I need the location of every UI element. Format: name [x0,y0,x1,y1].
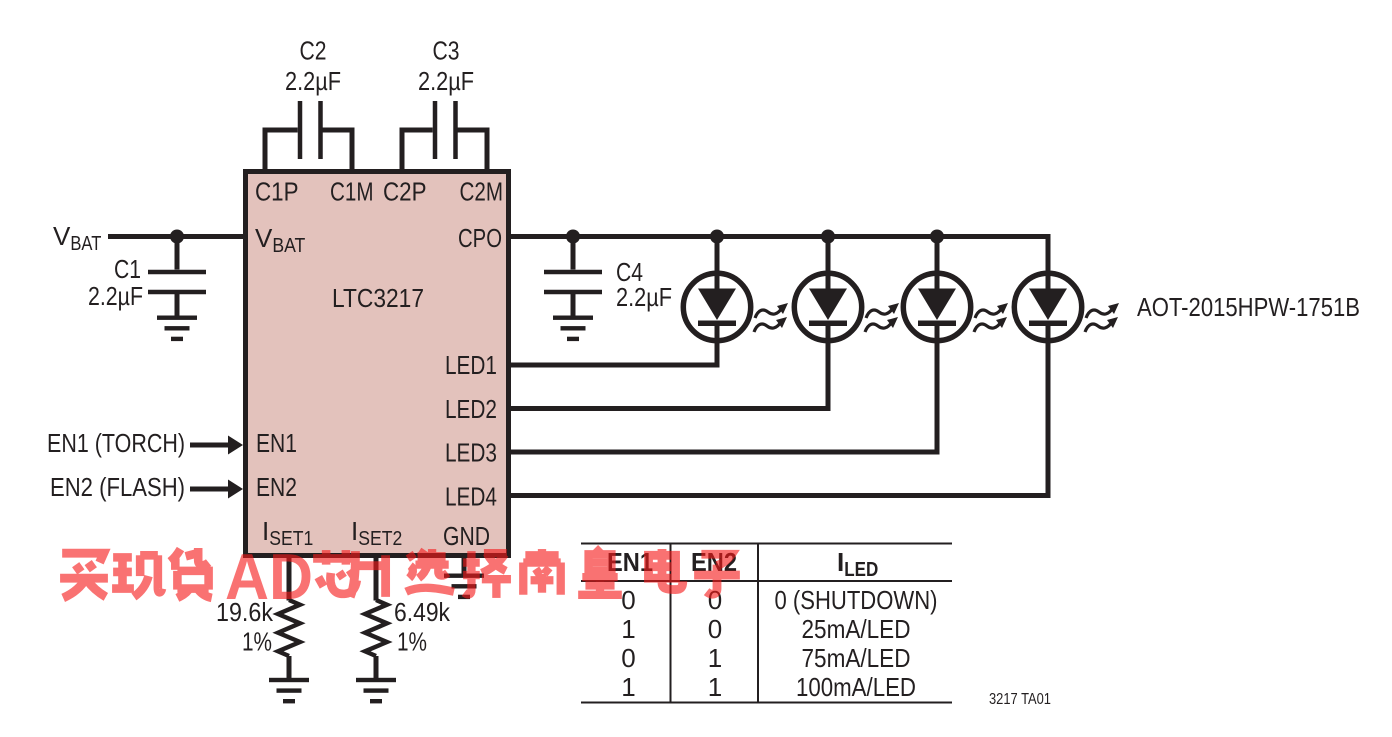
IC U1 LTC3217 body [246,172,509,556]
svg-text:C2P: C2P [383,177,427,207]
LED D3 light arrows [974,303,1008,332]
wire CPO output rail [511,234,1051,239]
wire C4 bottom [571,294,576,316]
svg-text:AOT-2015HPW-1751B: AOT-2015HPW-1751B [1137,292,1360,322]
LED D1 light arrows [754,303,788,332]
svg-text:1: 1 [708,672,722,702]
svg-text:0: 0 [621,643,635,673]
capacitor C4 [544,270,602,295]
svg-text:LED1: LED1 [445,350,497,380]
wire C4 top [571,237,576,270]
svg-text:C1P: C1P [255,177,299,207]
svg-text:CPO: CPO [458,223,502,253]
ground GND pin [444,574,484,600]
LED D3 [903,271,970,343]
svg-text:2.2µF: 2.2µF [285,66,341,96]
svg-text:1: 1 [708,643,722,673]
junction node LED D3 top [930,230,944,244]
svg-text:EN2 (FLASH): EN2 (FLASH) [50,472,185,502]
wire GND pin down [462,558,467,574]
svg-text:GND: GND [443,521,490,551]
wire LED D4 to LED4 pin [511,338,1048,496]
svg-text:LTC3217: LTC3217 [332,283,424,313]
svg-text:0: 0 [708,614,722,644]
wire LED D2 to LED2 pin [511,338,828,409]
svg-text:EN2: EN2 [256,472,297,502]
wire R1 bottom [287,656,292,678]
input arrow EN1 [190,436,243,455]
wire LED D1 to LED1 pin [511,338,717,365]
resistor R2 6.49k [365,600,387,656]
svg-text:EN1: EN1 [256,428,297,458]
svg-text:75mA/LED: 75mA/LED [802,643,911,673]
LED D2 [794,271,861,343]
wire rail to LED D3 [935,237,940,275]
wire C1 bottom [175,294,180,316]
wire VBAT input to VBAT pin [108,234,243,239]
svg-text:25mA/LED: 25mA/LED [802,614,911,644]
junction node CPO/C4 [566,230,580,244]
svg-text:LED3: LED3 [445,438,497,468]
junction node LED D1 top [710,230,724,244]
wire ISET1 pin down [287,558,292,601]
svg-text:LED2: LED2 [445,394,497,424]
wire rail corner to LED D4 [1046,234,1051,274]
svg-text:EN1 (TORCH): EN1 (TORCH) [47,428,185,458]
svg-text:0 (SHUTDOWN): 0 (SHUTDOWN) [775,585,938,615]
ground R1 [269,678,309,704]
svg-text:3217 TA01: 3217 TA01 [989,691,1051,708]
truth table frame [581,544,952,703]
wire R2 bottom [374,656,379,678]
LED D2 light arrows [865,303,899,332]
resistor R1 19.6k [278,600,300,656]
svg-text:1%: 1% [397,627,427,657]
capacitor C3 [402,101,487,169]
svg-text:AD: AD [225,540,313,613]
svg-text:C1: C1 [114,254,141,284]
input arrow EN2 [190,480,243,499]
LED D1 [683,271,750,343]
red watermark text [60,540,740,613]
wire C1 top [175,237,180,270]
svg-text:C3: C3 [433,36,460,66]
ground C4 [553,316,593,342]
capacitor C1 [148,270,206,295]
svg-text:2.2µF: 2.2µF [88,281,143,311]
svg-text:2.2µF: 2.2µF [418,66,474,96]
svg-text:C1M: C1M [330,177,374,207]
svg-text:0: 0 [621,585,635,615]
svg-text:6.49k: 6.49k [394,597,451,627]
svg-text:1: 1 [621,614,635,644]
ground C1 [157,316,197,342]
svg-text:2.2µF: 2.2µF [616,282,672,312]
wire ISET2 pin down [374,558,379,601]
wire LED D3 to LED3 pin [511,338,937,452]
LED D4 light arrows [1085,303,1119,332]
wire rail to LED D2 [826,237,831,275]
LED D4 [1014,271,1081,343]
junction node VBAT/C1 [170,230,184,244]
svg-text:100mA/LED: 100mA/LED [796,672,916,702]
svg-text:1: 1 [621,672,635,702]
svg-text:C2M: C2M [460,177,504,207]
junction node LED D2 top [821,230,835,244]
wire rail to LED D1 [715,237,720,275]
ground R2 [356,678,396,704]
capacitor C2 [265,101,352,169]
svg-text:C2: C2 [300,36,327,66]
svg-text:LED4: LED4 [445,482,497,512]
svg-text:1%: 1% [242,627,272,657]
